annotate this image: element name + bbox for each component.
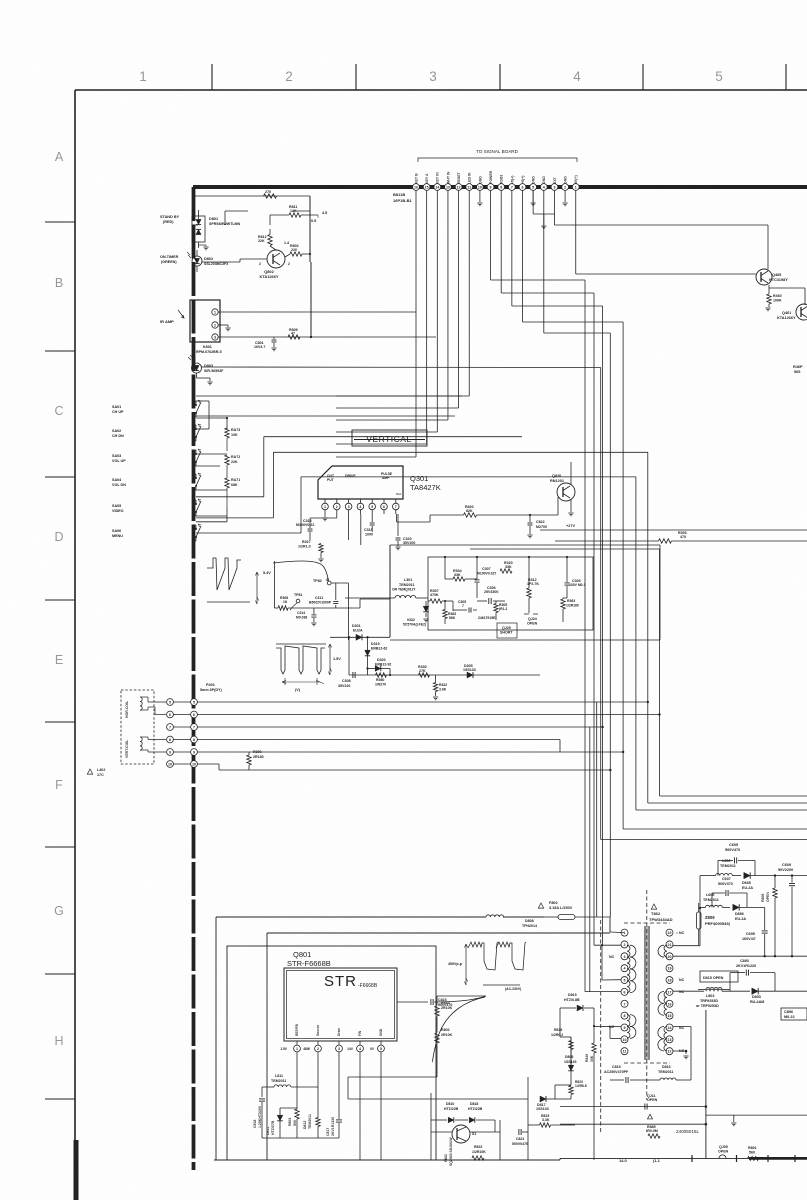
svg-text:RN1201: RN1201 <box>550 479 564 483</box>
diode D818 HTZ/22B <box>455 1102 495 1132</box>
svg-text:560: 560 <box>749 1151 755 1155</box>
svg-text:D: D <box>54 530 63 544</box>
svg-text:TA8427K: TA8427K <box>410 483 441 492</box>
svg-text:NC: NC <box>679 990 685 994</box>
svg-text:2R10K: 2R10K <box>441 1033 453 1037</box>
svg-text:14: 14 <box>435 186 439 190</box>
svg-text:D802: D802 <box>204 257 213 261</box>
svg-text:(R1.2: (R1.2 <box>499 607 507 611</box>
svg-text:4: 4 <box>624 967 626 971</box>
diode D665 EU-2A <box>742 872 807 890</box>
svg-text:5: 5 <box>624 979 626 983</box>
svg-text:R363: R363 <box>567 599 575 603</box>
svg-text:KTA1266Y: KTA1266Y <box>777 316 796 320</box>
resistor R819 33K vertical <box>585 1030 596 1160</box>
zener Z809 PRF4000549 <box>697 903 731 946</box>
svg-text:35V100: 35V100 <box>403 541 415 545</box>
svg-text:13: 13 <box>668 1038 672 1042</box>
switch SA03 VOL UP <box>112 449 201 466</box>
svg-text:2R180: 2R180 <box>253 755 264 759</box>
transformer dashed boundary <box>624 890 670 1100</box>
label R46P 565 <box>793 365 803 374</box>
svg-text:D805: D805 <box>565 1055 573 1059</box>
svg-text:5.4V: 5.4V <box>263 571 271 575</box>
svg-text:9: 9 <box>490 186 492 190</box>
svg-text:16P1B-B1: 16P1B-B1 <box>393 198 412 203</box>
svg-text:3: 3 <box>429 69 437 84</box>
svg-text:R322: R322 <box>439 683 447 687</box>
svg-text:M0.038: M0.038 <box>296 616 307 620</box>
transistor Q461 KTA1266Y <box>769 288 807 320</box>
svg-text:RA72: RA72 <box>231 455 240 459</box>
resistor R801 560 <box>748 1146 759 1160</box>
svg-text:B811B: B811B <box>393 192 405 197</box>
svg-text:1SS145: 1SS145 <box>564 1060 577 1064</box>
inductor L656 TEM2011 + capacitor C605 500V470 <box>700 843 755 876</box>
wire main top bus <box>193 185 807 189</box>
resistor RA71 68K <box>225 478 240 508</box>
diode D305 1SS133 <box>463 664 476 678</box>
svg-text:T862: T862 <box>651 911 661 916</box>
fuse F802 3.15A L/250V <box>538 901 610 920</box>
svg-text:C893: C893 <box>740 959 749 963</box>
svg-text:GND: GND <box>564 176 568 184</box>
svg-text:3: 3 <box>553 186 555 190</box>
svg-text:2: 2 <box>624 943 626 947</box>
transistor Q802 KTA1266Y <box>259 241 290 279</box>
svg-text:SA02: SA02 <box>112 429 121 433</box>
svg-text:tR0.0M: tR0.0M <box>646 1129 658 1133</box>
svg-text:D810: D810 <box>446 1102 454 1106</box>
svg-text:0332: 0332 <box>407 618 415 622</box>
wire K801 pin1 to matrix <box>219 311 417 313</box>
diode D819 HTZ/6.8B <box>560 993 595 1037</box>
svg-text:C695: C695 <box>746 932 755 936</box>
svg-text:2: 2 <box>259 262 261 266</box>
wire long row B 396 <box>196 395 462 397</box>
wire secondary ground rail pin20 <box>673 955 807 957</box>
transformer left winding 2-6 <box>627 945 636 992</box>
waveform mains 450Vp-p <box>448 942 526 991</box>
wire K801 pin3 rail <box>219 262 437 338</box>
svg-text:10: 10 <box>168 763 172 767</box>
svg-text:16: 16 <box>414 186 418 190</box>
svg-text:RA71: RA71 <box>231 478 240 482</box>
wire 5V to Q465 base <box>576 191 756 275</box>
switch SA05 VIDEO <box>112 499 201 516</box>
ground K801 pin2 <box>219 325 231 331</box>
svg-text:ERB12-92: ERB12-92 <box>375 663 391 667</box>
svg-text:48W: 48W <box>303 1047 311 1051</box>
svg-text:QJ25: QJ25 <box>502 626 511 630</box>
diode D302 5C570A LFE2 <box>403 601 429 627</box>
diode D896 EU-2A <box>733 904 765 921</box>
svg-text:L803: L803 <box>706 994 714 998</box>
resistor R363 1/2R180 <box>561 598 579 622</box>
svg-text:1/2R1.0: 1/2R1.0 <box>298 545 311 549</box>
svg-text:P401: P401 <box>206 683 215 687</box>
transformer left winding 8-10 <box>627 1015 636 1039</box>
svg-text:D803: D803 <box>752 995 761 999</box>
resistor R802 220 <box>285 244 311 257</box>
svg-text:12K: 12K <box>290 209 297 213</box>
resistor R801 270 <box>264 186 277 198</box>
wire pin21 secondary rail <box>673 876 701 946</box>
svg-text:3: 3 <box>624 955 626 959</box>
capacitor C801 16V4.7 <box>254 337 277 351</box>
label box VERTICAL <box>352 430 427 446</box>
svg-text:OPEN: OPEN <box>766 892 770 902</box>
svg-text:D808: D808 <box>525 919 534 923</box>
svg-text:C605: C605 <box>729 843 738 847</box>
svg-text:SHORT: SHORT <box>500 631 513 635</box>
svg-text:TEM2011: TEM2011 <box>703 898 719 902</box>
svg-text:D801: D801 <box>209 217 218 221</box>
wire +27V rail <box>540 462 807 530</box>
jumper D815 OPEN box <box>698 971 738 989</box>
svg-text:NC: NC <box>609 955 615 959</box>
wire feedback loop box <box>348 996 571 1160</box>
curve waveform drain <box>432 997 485 1062</box>
svg-text:D815 OPEN: D815 OPEN <box>703 976 724 980</box>
svg-text:R802: R802 <box>441 1028 450 1032</box>
svg-text:M100V0.22: M100V0.22 <box>296 523 314 527</box>
svg-text:TEM2011: TEM2011 <box>271 1079 286 1083</box>
IR receiver K801 RPM-0762BR-5 <box>160 300 222 354</box>
power supply outline boxes <box>216 920 610 1160</box>
svg-text:1.4: 1.4 <box>284 241 289 245</box>
svg-text:DRIVE: DRIVE <box>345 474 356 478</box>
wire standby branch <box>193 196 310 262</box>
diode D805 1SS145 <box>564 1037 577 1085</box>
svg-text:9: 9 <box>193 751 195 755</box>
svg-text:6: 6 <box>169 713 171 717</box>
IC Q801 STR-F6668B body <box>284 968 397 1041</box>
svg-text:500V470: 500V470 <box>718 882 733 886</box>
svg-text:7: 7 <box>193 726 195 730</box>
resistor R889 tR0.0M <box>640 1114 660 1138</box>
transformer right winding 17-15 <box>658 992 667 1016</box>
svg-text:S1: S1 <box>472 1132 476 1136</box>
svg-text:RA73: RA73 <box>231 428 240 432</box>
capacitor C817 2KV1R1330 <box>326 1100 342 1138</box>
jumper QJ25 SHORT <box>497 623 517 638</box>
svg-text:3.3K: 3.3K <box>542 1118 550 1122</box>
svg-text:565: 565 <box>794 370 800 374</box>
svg-text:7: 7 <box>395 505 397 509</box>
svg-text:CH DN: CH DN <box>112 434 124 438</box>
resistor R803 500 <box>288 1087 299 1138</box>
svg-text:SSL203MC3FX: SSL203MC3FX <box>204 262 229 266</box>
svg-text:470: 470 <box>680 535 686 539</box>
svg-text:1: 1 <box>575 186 577 190</box>
svg-text:2R10K: 2R10K <box>441 1006 453 1010</box>
resistor RA72 22K <box>225 455 240 478</box>
inductor L803 TRF9253D <box>673 989 750 1008</box>
inductor L811 TEM2011 <box>262 1074 318 1087</box>
svg-text:10: 10 <box>478 186 482 190</box>
diode D812 TEM2011 <box>303 1113 320 1138</box>
resistor R307 470K <box>428 589 453 611</box>
svg-text:TEM2011: TEM2011 <box>720 864 736 868</box>
ground mid bottom <box>733 1141 735 1146</box>
resistors R833 R802 2R10K <box>435 996 486 1077</box>
svg-text:4: 4 <box>359 505 361 509</box>
resistor RA73 10K <box>225 428 240 451</box>
svg-text:17C: 17C <box>97 773 104 777</box>
svg-text:3.15A L/250V: 3.15A L/250V <box>549 906 573 910</box>
svg-text:5C570A(LFE2): 5C570A(LFE2) <box>403 623 426 627</box>
svg-text:D811: D811 <box>266 1127 270 1135</box>
svg-text:B: B <box>55 276 63 290</box>
svg-text:16V4.7: 16V4.7 <box>254 345 265 349</box>
svg-text:AMP: AMP <box>382 476 390 480</box>
svg-text:220: 220 <box>291 248 297 252</box>
svg-text:0.5: 0.5 <box>311 219 316 223</box>
connector B811B bracket TO SIGNAL BOARD <box>418 149 577 162</box>
svg-text:7: 7 <box>624 1002 626 1006</box>
wire P401 long horizontals <box>174 701 661 764</box>
svg-text:1/2R10K: 1/2R10K <box>472 1150 486 1154</box>
diode D802 ON-TIMER green LED <box>187 250 267 272</box>
switch SA01 CH UP <box>112 400 201 417</box>
svg-text:C: C <box>54 404 63 418</box>
svg-text:PRF4000549(: PRF4000549( <box>705 921 731 926</box>
connector B811B pin labels <box>414 170 578 184</box>
svg-text:R833: R833 <box>441 1001 450 1005</box>
svg-text:RU-4AM: RU-4AM <box>750 1000 764 1004</box>
svg-text:14: 14 <box>668 1026 672 1030</box>
svg-text:SA04: SA04 <box>112 478 122 482</box>
svg-text:82K: 82K <box>466 509 473 513</box>
svg-text:TFH2014: TFH2014 <box>522 924 537 928</box>
wire primary snubber rail <box>262 1138 339 1148</box>
svg-text:9: 9 <box>169 751 171 755</box>
svg-text:L606: L606 <box>706 893 714 897</box>
svg-text:8: 8 <box>169 738 171 742</box>
svg-text:16: 16 <box>668 1002 672 1006</box>
svg-text:D818: D818 <box>470 1102 478 1106</box>
svg-text:KTA1266Y: KTA1266Y <box>260 274 279 279</box>
svg-text:2: 2 <box>214 324 216 328</box>
wire chopper rail <box>431 1093 500 1160</box>
svg-text:R802: R802 <box>444 1154 448 1162</box>
svg-text:TO SIGNAL BOARD: TO SIGNAL BOARD <box>476 149 519 154</box>
wire STR drain curve <box>339 1056 432 1061</box>
diode D803 SIR-56593F <box>188 355 224 385</box>
row letters <box>54 150 64 1048</box>
jumper QJ11 OPEN <box>645 1094 658 1110</box>
ground IC pin1 <box>322 514 327 521</box>
svg-text:R822: R822 <box>474 1145 482 1149</box>
column numbers <box>139 69 723 84</box>
svg-text:F802: F802 <box>549 901 558 905</box>
svg-text:1W270: 1W270 <box>375 683 386 687</box>
resistor R360 1W270 <box>375 673 387 687</box>
capacitor C821 500V0470 <box>512 1129 528 1146</box>
svg-text:22K: 22K <box>231 460 238 464</box>
wire EXT to Q465 area <box>554 214 768 269</box>
resistor R809 OPEN <box>761 876 777 956</box>
capacitor C313 M100V0.22 <box>296 514 337 540</box>
svg-text:L656: L656 <box>722 859 730 863</box>
svg-text:1.5V: 1.5V <box>333 657 341 661</box>
svg-text:6: 6 <box>383 505 385 509</box>
svg-text:68K: 68K <box>231 483 238 487</box>
svg-text:2: 2 <box>285 69 293 84</box>
svg-text:33K: 33K <box>505 565 512 569</box>
svg-text:L402: L402 <box>97 768 105 772</box>
svg-text:SPR54MWWTLMN: SPR54MWWTLMN <box>209 222 241 226</box>
svg-text:-F6668B: -F6668B <box>358 983 378 989</box>
transformer NC labels <box>609 931 685 1053</box>
svg-text:C821: C821 <box>516 1137 524 1141</box>
svg-text:TEM2011: TEM2011 <box>399 583 414 587</box>
wire R303 line to bundle <box>470 548 660 550</box>
svg-text:5: 5 <box>715 69 723 84</box>
inductor L606 TEM2011 + capacitor C607 500V470 <box>700 877 747 907</box>
label 14.0 and 1.1 <box>619 1158 661 1163</box>
resistor R330 27K <box>418 665 430 677</box>
svg-text:25V3300: 25V3300 <box>484 590 498 594</box>
svg-text:LED IN: LED IN <box>468 172 472 184</box>
resistor R320 33K <box>500 561 513 573</box>
svg-text:D819: D819 <box>568 993 577 997</box>
svg-text:QJ24: QJ24 <box>528 617 537 621</box>
deflection yoke dashed box <box>121 690 166 764</box>
svg-text:15: 15 <box>668 1014 672 1018</box>
wire drain snubber curve big <box>428 996 437 1061</box>
svg-text:5V(+): 5V(+) <box>574 175 578 184</box>
svg-text:K801: K801 <box>203 345 212 349</box>
svg-text:AC250V470PF: AC250V470PF <box>604 1070 629 1074</box>
svg-text:20: 20 <box>668 955 672 959</box>
IC Q301 pins 1-7 <box>322 499 399 514</box>
svg-text:500: 500 <box>293 1120 297 1126</box>
svg-text:GND: GND <box>478 176 482 184</box>
wire snubber net <box>318 1077 528 1160</box>
svg-text:OR TEMQ011Y: OR TEMQ011Y <box>392 588 416 592</box>
svg-text:WHT IN: WHT IN <box>446 171 450 184</box>
svg-text:4: 4 <box>543 186 545 190</box>
wire bundle connector pins to key matrix <box>336 191 469 458</box>
svg-text:EU2A: EU2A <box>353 629 363 633</box>
resistor R819 1/2R0.2 <box>551 1028 573 1065</box>
svg-text:1/2R180: 1/2R180 <box>566 604 579 608</box>
svg-text:10: 10 <box>623 1038 627 1042</box>
capacitor C823 500V470 <box>397 996 486 1007</box>
resistor R809 47 <box>288 328 300 339</box>
svg-text:D816: D816 <box>662 1065 671 1069</box>
svg-text:2: 2 <box>336 505 338 509</box>
svg-text:C308: C308 <box>342 679 351 683</box>
svg-text:OPEN: OPEN <box>718 1150 729 1154</box>
capacitor C893 2KV1R1220 <box>730 959 775 991</box>
svg-text:+27V: +27V <box>566 524 575 528</box>
capacitor C307 M100V0.027 <box>475 556 497 598</box>
jumper QJ24 OPEN <box>524 613 538 626</box>
svg-text:RPM-0762BR-5: RPM-0762BR-5 <box>196 350 222 354</box>
svg-text:TEM2011: TEM2011 <box>658 1070 673 1074</box>
test point TP82 with curve <box>273 561 331 585</box>
svg-text:11: 11 <box>467 186 471 190</box>
capacitor C308 35V220u <box>338 672 355 688</box>
svg-text:IR AMP: IR AMP <box>160 319 174 324</box>
svg-text:C815: C815 <box>612 1065 621 1069</box>
transistor Q802 SQ2N03 chopper <box>444 1125 476 1166</box>
capacitor C609 50V2200u <box>778 863 795 956</box>
inductor D816 TEM2011 <box>646 1065 691 1080</box>
svg-text:TP81: TP81 <box>294 593 302 597</box>
svg-text:MENU: MENU <box>112 534 123 538</box>
svg-text:M100V0.027: M100V0.027 <box>477 572 496 576</box>
svg-text:270: 270 <box>265 190 271 194</box>
svg-text:8: 8 <box>193 738 195 742</box>
svg-text:D812: D812 <box>303 1121 307 1129</box>
capacitor C305 24617915E <box>453 600 496 620</box>
IC Q801 pin leads <box>280 1023 384 1060</box>
svg-text:2: 2 <box>288 262 290 266</box>
svg-text:3: 3 <box>214 336 216 340</box>
svg-text:E: E <box>55 653 63 667</box>
resistor R812 22K <box>258 229 272 246</box>
svg-text:D320: D320 <box>377 658 386 662</box>
wire D803 output long <box>202 366 601 369</box>
svg-text:GND: GND <box>542 176 546 184</box>
svg-text:R803: R803 <box>288 1118 292 1126</box>
svg-text:R360: R360 <box>376 678 384 682</box>
svg-text:8: 8 <box>624 1014 626 1018</box>
wire vertical feedback rail B <box>349 674 540 676</box>
svg-text:100V M0.1: 100V M0.1 <box>569 583 586 587</box>
svg-text:L301: L301 <box>404 578 412 582</box>
resistor R322 3.6K <box>433 675 447 700</box>
svg-text:C896: C896 <box>784 1010 793 1014</box>
wire vertical feedback rail A <box>330 636 390 638</box>
diode D320 ERB12-92 <box>366 658 391 675</box>
resistor R822 1/2R10K <box>461 1143 486 1160</box>
svg-text:NC: NC <box>679 978 685 982</box>
svg-text:VOL DN: VOL DN <box>112 483 126 487</box>
svg-text:C607: C607 <box>722 877 731 881</box>
capacitor C818 1.25KHT2200 <box>253 1099 265 1138</box>
transistor Q465 KTC3198Y <box>756 269 788 285</box>
resistor R460 100K <box>767 285 782 304</box>
svg-text:R327: R327 <box>302 540 311 544</box>
wire right bundle verticals with bottom turns <box>601 322 807 840</box>
svg-text:9: 9 <box>624 1026 626 1030</box>
svg-text:SA06: SA06 <box>112 529 121 533</box>
svg-text:1.5V: 1.5V <box>280 1047 288 1051</box>
svg-text:5: 5 <box>380 1047 382 1051</box>
wire key matrix net <box>196 401 301 541</box>
svg-text:+5(+): +5(+) <box>521 176 525 184</box>
svg-text:Q461: Q461 <box>782 311 791 315</box>
svg-text:3: 3 <box>348 505 350 509</box>
svg-text:2KV1R1330: 2KV1R1330 <box>331 1117 335 1136</box>
svg-text:A: A <box>55 150 64 164</box>
svg-text:VERTICAL: VERTICAL <box>366 434 411 444</box>
svg-text:5mm 6P(DY): 5mm 6P(DY) <box>200 688 222 692</box>
svg-text:C311: C311 <box>315 596 323 600</box>
svg-text:KEY A: KEY A <box>425 173 429 184</box>
svg-text:6: 6 <box>624 990 626 994</box>
diode D301 EU2A <box>352 624 363 640</box>
svg-text:1: 1 <box>296 1047 298 1051</box>
svg-text:HTZ/6.8B: HTZ/6.8B <box>564 998 580 1002</box>
capacitor C896 M0.22 box <box>781 1008 807 1020</box>
svg-text:SA03: SA03 <box>112 454 121 458</box>
